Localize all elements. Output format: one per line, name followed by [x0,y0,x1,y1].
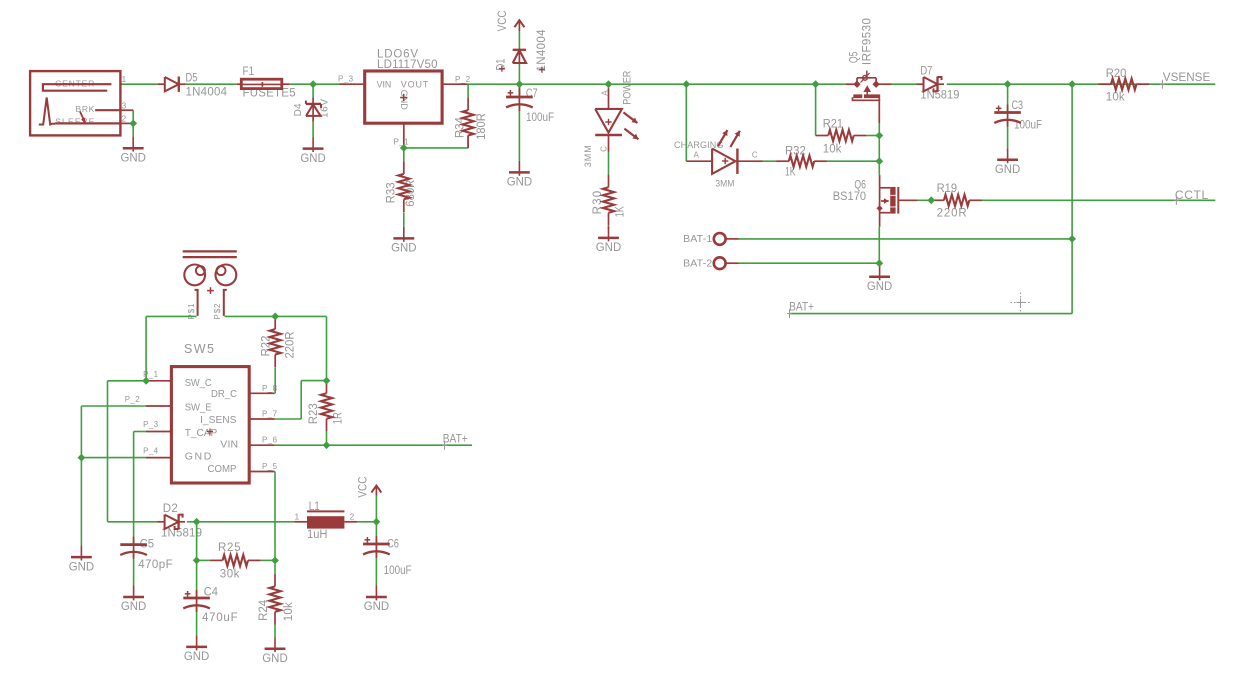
svg-text:D5: D5 [186,73,198,85]
svg-text:P_6: P_6 [262,436,278,445]
svg-text:I_SENS: I_SENS [200,414,236,426]
svg-text:2: 2 [350,512,355,522]
svg-text:BS170: BS170 [833,191,866,203]
svg-text:30k: 30k [220,569,240,581]
svg-text:R33: R33 [386,182,398,203]
svg-text:D7: D7 [920,65,932,77]
svg-text:C: C [752,151,758,160]
svg-text:GND: GND [184,649,210,663]
svg-text:GND: GND [121,150,147,164]
svg-text:P_1: P_1 [394,138,410,147]
svg-text:BAT-2: BAT-2 [683,257,712,269]
svg-text:POWER: POWER [622,71,634,105]
svg-text:CHARGING: CHARGING [674,140,723,150]
svg-text:VSENSE: VSENSE [1163,70,1211,84]
svg-text:SW_C: SW_C [185,377,212,389]
svg-text:100uF: 100uF [384,565,412,577]
svg-text:DR_C: DR_C [211,388,237,400]
svg-text:GND: GND [507,175,533,189]
svg-text:BAT+: BAT+ [789,299,814,313]
svg-text:2: 2 [122,114,127,124]
svg-text:IRF9530: IRF9530 [861,18,873,65]
svg-text:1N4004: 1N4004 [536,29,548,72]
svg-text:BAT-1: BAT-1 [683,233,712,245]
svg-text:BAT+: BAT+ [443,431,468,445]
svg-text:1N4004: 1N4004 [186,87,228,99]
svg-text:VCC: VCC [497,10,509,31]
svg-text:C3: C3 [1012,100,1024,112]
svg-text:P_5: P_5 [262,462,278,471]
svg-text:R20: R20 [1106,68,1127,80]
svg-text:P_2: P_2 [125,395,141,404]
svg-text:Q5: Q5 [849,52,861,64]
svg-text:VIN: VIN [220,439,238,451]
svg-text:220R: 220R [285,332,297,359]
svg-text:GND: GND [391,241,417,255]
svg-text:R19: R19 [937,183,958,195]
svg-text:SW5: SW5 [184,342,214,356]
svg-text:R22: R22 [261,336,273,357]
svg-text:LD1117V50: LD1117V50 [377,59,438,71]
svg-text:P$2: P$2 [213,303,222,320]
svg-text:180R: 180R [476,113,488,140]
svg-text:1: 1 [295,512,300,522]
svg-text:VOUT: VOUT [401,80,429,90]
svg-text:470uF: 470uF [202,612,238,624]
svg-text:T_CAP: T_CAP [185,427,218,439]
svg-text:3MM: 3MM [583,145,593,167]
svg-text:VIN: VIN [377,80,392,90]
svg-text:R24: R24 [258,599,270,621]
svg-text:SW_E: SW_E [185,401,212,413]
svg-text:1uH: 1uH [307,529,328,541]
svg-text:P_3: P_3 [143,420,159,429]
svg-text:100uF: 100uF [526,112,554,124]
svg-text:D2: D2 [163,503,178,515]
svg-text:GND: GND [69,559,95,573]
svg-text:220R: 220R [937,208,967,220]
svg-text:GND: GND [364,599,390,613]
svg-text:P_2: P_2 [455,75,471,84]
svg-text:C: C [600,146,609,152]
svg-text:BRK: BRK [76,104,95,114]
svg-text:470pF: 470pF [138,559,172,571]
svg-text:A: A [694,150,700,159]
svg-text:10k: 10k [823,143,842,155]
svg-text:10k: 10k [283,602,295,621]
svg-text:Q6: Q6 [854,180,866,192]
svg-text:GND: GND [995,162,1021,176]
svg-text:GND: GND [867,279,893,293]
svg-text:R21: R21 [823,119,843,131]
svg-text:VCC: VCC [358,477,370,498]
svg-text:1K: 1K [615,206,627,217]
svg-text:GND: GND [121,599,147,613]
svg-text:F1: F1 [243,66,255,78]
svg-text:GND: GND [185,450,212,462]
svg-text:1R: 1R [333,412,345,424]
svg-text:SLEEVE: SLEEVE [55,117,95,127]
svg-text:GND: GND [300,151,326,165]
svg-text:GND: GND [262,651,288,665]
svg-text:GND: GND [596,240,622,254]
svg-text:COMP: COMP [208,463,237,475]
svg-text:P_4: P_4 [143,446,159,455]
svg-text:1: 1 [122,74,127,84]
svg-text:3MM: 3MM [715,178,734,188]
svg-text:D4: D4 [293,103,304,116]
svg-text:P_3: P_3 [338,75,354,84]
svg-text:3: 3 [122,101,127,111]
svg-text:P_7: P_7 [262,409,278,418]
